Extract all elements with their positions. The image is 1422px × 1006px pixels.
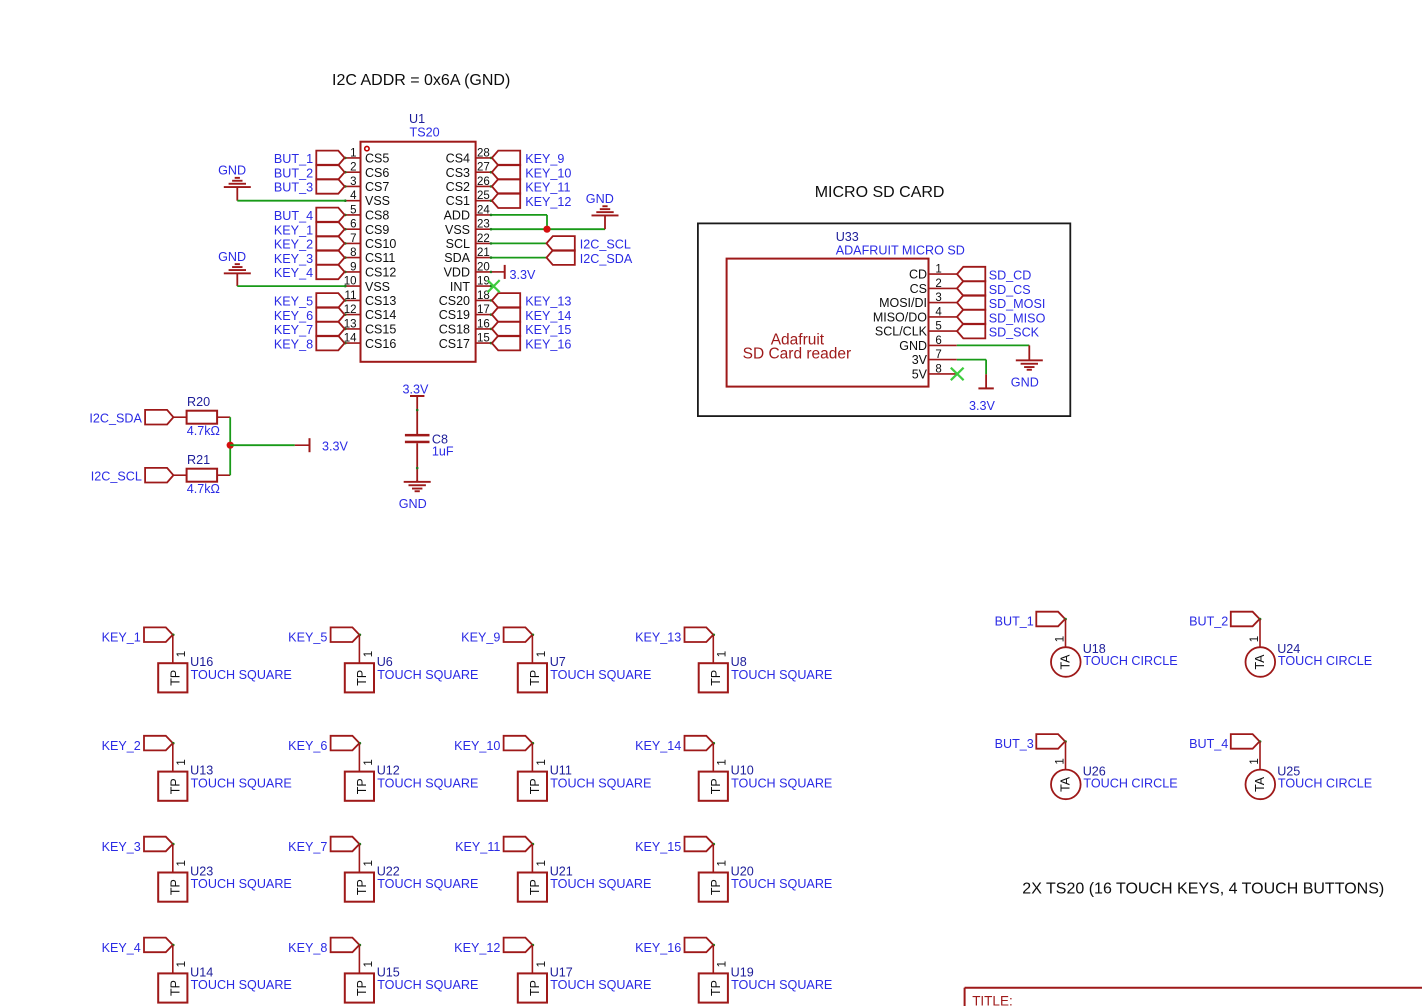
net label KEY_4 at U1 pin 9 [316, 265, 344, 280]
net label KEY_9 at U1 pin 28 [492, 151, 520, 166]
svg-text:TA: TA [1059, 654, 1073, 670]
svg-text:TP: TP [709, 778, 723, 794]
svg-text:CS14: CS14 [365, 308, 396, 322]
svg-text:KEY_4: KEY_4 [274, 266, 313, 280]
net label KEY_13 at U1 pin 18 [492, 293, 520, 308]
svg-text:9: 9 [350, 261, 356, 273]
svg-text:7: 7 [350, 233, 356, 245]
svg-text:CS15: CS15 [365, 323, 396, 337]
power 3.3V at pullups [295, 444, 309, 446]
svg-text:1: 1 [1249, 636, 1261, 642]
svg-text:CS11: CS11 [365, 251, 395, 265]
touch pad U7 TOUCH SQUARE (KEY_9) [504, 627, 533, 642]
svg-text:TS20: TS20 [410, 125, 440, 139]
svg-text:CS18: CS18 [439, 323, 470, 337]
touch pad U25 TOUCH CIRCLE (BUT_4) [1231, 734, 1260, 749]
touch pad U8 TOUCH SQUARE (KEY_13) [685, 627, 714, 642]
svg-text:TA: TA [1253, 654, 1267, 670]
svg-text:1: 1 [176, 961, 188, 967]
svg-text:KEY_1: KEY_1 [274, 223, 313, 237]
svg-text:TITLE:: TITLE: [972, 994, 1013, 1006]
U33 pin 5 (SCL/CLK) [929, 330, 957, 332]
svg-text:KEY_9: KEY_9 [525, 152, 564, 166]
net label KEY_2 at U1 pin 7 [316, 236, 344, 251]
U33 pin 1 (CD) [929, 273, 957, 275]
U1 pin 10 (VSS) [344, 285, 360, 287]
svg-text:TOUCH SQUARE: TOUCH SQUARE [191, 978, 292, 992]
svg-text:VSS: VSS [365, 194, 390, 208]
U1 pin 5 (CS8) [344, 214, 360, 216]
svg-text:ADD: ADD [444, 209, 470, 223]
svg-text:5: 5 [935, 321, 941, 333]
svg-text:TOUCH SQUARE: TOUCH SQUARE [377, 978, 478, 992]
svg-text:5V: 5V [912, 368, 928, 382]
svg-text:CS13: CS13 [365, 294, 396, 308]
svg-text:TP: TP [709, 879, 723, 895]
net label BUT_2 at U1 pin 2 [316, 165, 344, 180]
svg-text:KEY_1: KEY_1 [102, 631, 141, 645]
svg-text:TOUCH SQUARE: TOUCH SQUARE [731, 776, 832, 790]
svg-text:6: 6 [350, 219, 356, 231]
svg-text:GND: GND [218, 250, 246, 264]
U1 pin 24 (ADD) [476, 214, 492, 216]
svg-text:SD_CD: SD_CD [989, 269, 1032, 283]
svg-text:CS1: CS1 [446, 194, 470, 208]
svg-text:TOUCH SQUARE: TOUCH SQUARE [191, 877, 292, 891]
svg-text:4: 4 [935, 306, 942, 318]
net label KEY_10 at U1 pin 27 [492, 165, 520, 180]
svg-text:KEY_16: KEY_16 [525, 337, 571, 351]
resistor R20 4.7kOhm [187, 411, 218, 424]
svg-text:KEY_10: KEY_10 [454, 739, 500, 753]
IC U1 TS20 body [361, 142, 476, 362]
svg-text:1: 1 [350, 147, 356, 159]
svg-text:26: 26 [477, 176, 490, 188]
svg-text:2X TS20 (16 TOUCH KEYS, 4 TOUC: 2X TS20 (16 TOUCH KEYS, 4 TOUCH BUTTONS) [1022, 880, 1384, 897]
svg-text:3.3V: 3.3V [969, 399, 996, 413]
net label I2C_SCL [547, 236, 575, 251]
U1 pin 19 (INT) [476, 285, 492, 287]
svg-text:TA: TA [1253, 776, 1267, 792]
svg-text:KEY_7: KEY_7 [274, 323, 313, 337]
net label I2C_SDA at R20 [145, 410, 173, 425]
U1 pin 14 (CS16) [344, 342, 360, 344]
touch pad U19 TOUCH SQUARE (KEY_16) [685, 938, 714, 953]
svg-text:4: 4 [350, 190, 357, 202]
svg-text:TP: TP [355, 980, 369, 996]
svg-text:12: 12 [344, 304, 357, 316]
svg-text:BUT_1: BUT_1 [274, 152, 313, 166]
net label SD_MISO at U33 pin 4 [957, 310, 985, 325]
net label KEY_3 at U1 pin 8 [316, 250, 344, 265]
svg-text:INT: INT [450, 280, 471, 294]
U1 pin 23 (VSS) [476, 228, 492, 230]
net label KEY_7 at U1 pin 13 [316, 322, 344, 337]
touch pad U23 TOUCH SQUARE (KEY_3) [144, 837, 173, 852]
svg-text:KEY_8: KEY_8 [274, 337, 313, 351]
svg-text:BUT_1: BUT_1 [995, 615, 1034, 629]
U1 pin 4 (VSS) [344, 200, 360, 202]
svg-text:BUT_2: BUT_2 [274, 166, 313, 180]
U1 pin 18 (CS20) [476, 299, 492, 301]
power 3.3V at U1 pin 20 VDD [492, 271, 504, 273]
svg-text:1: 1 [363, 860, 375, 866]
svg-text:CS19: CS19 [439, 308, 470, 322]
touch pad U24 TOUCH CIRCLE (BUT_2) [1231, 612, 1260, 627]
wire U1 pin 24 ADD to junction [492, 214, 547, 216]
U1 pin 2 (CS6) [344, 171, 360, 173]
U1 pin 26 (CS2) [476, 185, 492, 187]
svg-text:1: 1 [1055, 636, 1067, 642]
IC U33 body Adafruit SD card reader [727, 259, 929, 387]
svg-text:TP: TP [528, 980, 542, 996]
svg-text:TOUCH CIRCLE: TOUCH CIRCLE [1278, 654, 1372, 668]
svg-text:17: 17 [477, 304, 490, 316]
wire I2C_SCL to R21 [173, 474, 186, 476]
U1 pin 9 (CS12) [344, 271, 360, 273]
svg-text:SDA: SDA [444, 251, 470, 265]
svg-text:1uF: 1uF [432, 445, 454, 459]
svg-text:2: 2 [935, 278, 941, 290]
svg-text:KEY_8: KEY_8 [288, 941, 327, 955]
net label SD_MOSI at U33 pin 3 [957, 295, 985, 310]
svg-text:7: 7 [935, 349, 941, 361]
touch pad U11 TOUCH SQUARE (KEY_10) [504, 736, 533, 751]
wire I2C_SDA to R20 [173, 416, 186, 418]
svg-text:CS9: CS9 [365, 223, 389, 237]
svg-text:KEY_13: KEY_13 [635, 631, 681, 645]
svg-text:GND: GND [586, 192, 614, 206]
svg-text:3: 3 [935, 292, 941, 304]
svg-text:GND: GND [899, 339, 927, 353]
svg-text:11: 11 [345, 290, 357, 302]
wire junction to 3.3V [230, 444, 295, 446]
svg-text:21: 21 [477, 247, 490, 259]
wire C8 to ground [416, 443, 418, 481]
touch pad U13 TOUCH SQUARE (KEY_2) [144, 736, 173, 751]
svg-text:U1: U1 [409, 112, 425, 126]
svg-text:1: 1 [717, 860, 729, 866]
svg-text:GND: GND [218, 164, 246, 178]
net label KEY_5 at U1 pin 11 [316, 293, 344, 308]
svg-text:14: 14 [344, 333, 357, 345]
svg-text:I2C_SCL: I2C_SCL [91, 469, 142, 483]
svg-text:3: 3 [350, 176, 356, 188]
U1 pin 12 (CS14) [344, 314, 360, 316]
svg-text:24: 24 [477, 204, 490, 216]
svg-text:BUT_2: BUT_2 [1189, 615, 1228, 629]
touch pad U12 TOUCH SQUARE (KEY_6) [331, 736, 360, 751]
svg-text:3.3V: 3.3V [510, 268, 537, 282]
svg-text:KEY_9: KEY_9 [461, 631, 500, 645]
svg-text:I2C_SDA: I2C_SDA [580, 252, 633, 266]
svg-text:TP: TP [355, 879, 369, 895]
touch pad U10 TOUCH SQUARE (KEY_14) [685, 736, 714, 751]
svg-text:SD_MOSI: SD_MOSI [989, 297, 1046, 311]
svg-text:CS: CS [910, 282, 927, 296]
touch pad U21 TOUCH SQUARE (KEY_11) [504, 837, 533, 852]
svg-text:CS12: CS12 [365, 266, 396, 280]
net label I2C_SCL at R21 [145, 468, 173, 483]
U1 pin 21 (SDA) [476, 257, 492, 259]
svg-text:1: 1 [536, 961, 548, 967]
svg-text:GND: GND [1011, 376, 1039, 390]
U1 pin 16 (CS18) [476, 328, 492, 330]
U1 pin 27 (CS3) [476, 171, 492, 173]
U1 pin 7 (CS10) [344, 242, 360, 244]
wire GND to U1 pin 10 [237, 285, 344, 287]
svg-text:1: 1 [1249, 758, 1261, 764]
svg-text:KEY_5: KEY_5 [274, 295, 313, 309]
svg-text:CS20: CS20 [439, 294, 470, 308]
svg-text:SCL/CLK: SCL/CLK [875, 325, 928, 339]
touch pad U15 TOUCH SQUARE (KEY_8) [331, 938, 360, 953]
svg-text:MOSI/DI: MOSI/DI [879, 296, 927, 310]
svg-text:ADAFRUIT MICRO SD: ADAFRUIT MICRO SD [836, 243, 965, 257]
svg-text:2: 2 [350, 162, 356, 174]
svg-text:I2C ADDR = 0x6A (GND): I2C ADDR = 0x6A (GND) [332, 72, 510, 89]
svg-text:MICRO SD CARD: MICRO SD CARD [815, 184, 945, 201]
svg-text:BUT_4: BUT_4 [1189, 737, 1228, 751]
svg-text:KEY_5: KEY_5 [288, 631, 327, 645]
svg-text:SD_SCK: SD_SCK [989, 326, 1040, 340]
wire U1 pin 22 SCL [492, 242, 547, 244]
net label KEY_6 at U1 pin 12 [316, 307, 344, 322]
svg-text:U33: U33 [836, 230, 859, 244]
svg-text:15: 15 [477, 333, 490, 345]
net label KEY_8 at U1 pin 14 [316, 336, 344, 351]
svg-text:3.3V: 3.3V [322, 440, 349, 454]
svg-text:R20: R20 [187, 395, 210, 409]
svg-text:TP: TP [169, 778, 183, 794]
svg-text:TP: TP [528, 879, 542, 895]
svg-text:KEY_16: KEY_16 [635, 941, 681, 955]
svg-text:CS8: CS8 [365, 209, 389, 223]
no-connect X at U33 pin 8 5V [951, 368, 964, 381]
svg-text:CS16: CS16 [365, 337, 396, 351]
U33 pin 8 (5V) [929, 373, 957, 375]
svg-text:TOUCH SQUARE: TOUCH SQUARE [550, 877, 651, 891]
net label KEY_11 at U1 pin 26 [492, 179, 520, 194]
svg-text:VSS: VSS [445, 223, 470, 237]
ground GND at U1 pins 23/24 [604, 215, 606, 229]
svg-text:CS2: CS2 [446, 180, 470, 194]
svg-text:SCL: SCL [446, 237, 470, 251]
svg-text:R21: R21 [187, 453, 210, 467]
no-connect X at U1 pin 19 INT [488, 280, 500, 292]
svg-text:TOUCH CIRCLE: TOUCH CIRCLE [1083, 776, 1177, 790]
svg-text:1: 1 [717, 759, 729, 765]
svg-text:TOUCH SQUARE: TOUCH SQUARE [377, 668, 478, 682]
touch pad U18 TOUCH CIRCLE (BUT_1) [1036, 612, 1065, 627]
svg-text:TOUCH SQUARE: TOUCH SQUARE [377, 877, 478, 891]
svg-text:3V: 3V [912, 353, 928, 367]
wire U33 pin 6 GND [957, 344, 1030, 346]
svg-text:4.7kΩ: 4.7kΩ [187, 482, 220, 496]
svg-text:KEY_2: KEY_2 [102, 739, 141, 753]
svg-text:KEY_4: KEY_4 [102, 941, 141, 955]
svg-text:KEY_13: KEY_13 [525, 295, 571, 309]
svg-text:TOUCH SQUARE: TOUCH SQUARE [731, 978, 832, 992]
net label BUT_3 at U1 pin 3 [316, 179, 344, 194]
touch pad U17 TOUCH SQUARE (KEY_12) [504, 938, 533, 953]
U33 pin 6 (GND) [929, 344, 957, 346]
U1 pin 8 (CS11) [344, 257, 360, 259]
touch pad U16 TOUCH SQUARE (KEY_1) [144, 627, 173, 642]
svg-text:TP: TP [169, 980, 183, 996]
svg-text:TOUCH SQUARE: TOUCH SQUARE [191, 776, 292, 790]
net label BUT_1 at U1 pin 1 [316, 151, 344, 166]
net label KEY_12 at U1 pin 25 [492, 193, 520, 208]
net label SD_CS at U33 pin 2 [957, 281, 985, 296]
svg-text:I2C_SCL: I2C_SCL [580, 238, 631, 252]
svg-text:SD_MISO: SD_MISO [989, 312, 1046, 326]
U1 pin 25 (CS1) [476, 200, 492, 202]
svg-text:TOUCH SQUARE: TOUCH SQUARE [377, 776, 478, 790]
svg-text:KEY_3: KEY_3 [274, 252, 313, 266]
svg-text:KEY_15: KEY_15 [525, 323, 571, 337]
svg-text:KEY_6: KEY_6 [274, 309, 313, 323]
svg-text:6: 6 [935, 335, 941, 347]
wire GND to U1 pin 4 [237, 200, 344, 202]
svg-text:KEY_10: KEY_10 [525, 166, 571, 180]
svg-text:TOUCH SQUARE: TOUCH SQUARE [731, 668, 832, 682]
net label I2C_SDA [547, 250, 575, 265]
net label SD_CD at U33 pin 1 [957, 267, 985, 282]
svg-text:1: 1 [176, 860, 188, 866]
net label SD_SCK at U33 pin 5 [957, 324, 985, 339]
svg-text:TP: TP [169, 879, 183, 895]
svg-text:KEY_11: KEY_11 [525, 181, 570, 195]
svg-text:3.3V: 3.3V [403, 382, 430, 396]
net label KEY_15 at U1 pin 16 [492, 322, 520, 337]
U1 pin 3 (CS7) [344, 185, 360, 187]
svg-text:TOUCH SQUARE: TOUCH SQUARE [191, 668, 292, 682]
svg-text:VDD: VDD [444, 266, 470, 280]
svg-text:CS6: CS6 [365, 166, 389, 180]
module frame U33 [698, 223, 1070, 416]
svg-text:MISO/DO: MISO/DO [873, 311, 927, 325]
svg-text:TP: TP [528, 778, 542, 794]
svg-text:1: 1 [363, 651, 375, 657]
svg-text:TP: TP [709, 980, 723, 996]
svg-text:22: 22 [477, 233, 490, 245]
svg-text:CS4: CS4 [446, 152, 470, 166]
svg-text:KEY_7: KEY_7 [288, 840, 327, 854]
U1 pin 17 (CS19) [476, 314, 492, 316]
svg-text:1: 1 [717, 651, 729, 657]
svg-text:1: 1 [935, 264, 941, 276]
U1 pin 15 (CS17) [476, 342, 492, 344]
U1 pin 13 (CS15) [344, 328, 360, 330]
ground GND at U1 pin 10 [236, 273, 238, 286]
svg-text:VSS: VSS [365, 280, 390, 294]
U1 pin 11 (CS13) [344, 299, 360, 301]
svg-text:KEY_15: KEY_15 [635, 840, 681, 854]
svg-text:KEY_2: KEY_2 [274, 238, 313, 252]
svg-text:KEY_12: KEY_12 [525, 195, 571, 209]
svg-text:KEY_3: KEY_3 [102, 840, 141, 854]
svg-text:1: 1 [717, 961, 729, 967]
title block frame [965, 987, 1422, 989]
svg-text:1: 1 [536, 860, 548, 866]
svg-text:CS3: CS3 [446, 166, 470, 180]
svg-text:1: 1 [536, 759, 548, 765]
wire R20 to junction [217, 416, 230, 418]
touch pad U26 TOUCH CIRCLE (BUT_3) [1036, 734, 1065, 749]
svg-text:TA: TA [1059, 776, 1073, 792]
touch pad U20 TOUCH SQUARE (KEY_15) [685, 837, 714, 852]
svg-text:BUT_3: BUT_3 [274, 181, 313, 195]
wire R21 to junction [217, 474, 230, 476]
ground GND at U1 pin 4 [236, 187, 238, 201]
U1 pin 20 (VDD) [476, 271, 492, 273]
ground GND at U33 pin 6 [1028, 345, 1030, 360]
U1 pin 1 (CS5) [344, 157, 360, 159]
svg-text:SD Card reader: SD Card reader [743, 346, 852, 363]
U1 pin 6 (CS9) [344, 228, 360, 230]
power 3.3V at U33 pin 7 [985, 374, 987, 387]
svg-text:TP: TP [528, 670, 542, 686]
svg-text:KEY_14: KEY_14 [525, 309, 571, 323]
svg-text:TOUCH SQUARE: TOUCH SQUARE [731, 877, 832, 891]
svg-text:8: 8 [350, 247, 356, 259]
svg-text:CS7: CS7 [365, 180, 389, 194]
touch pad U22 TOUCH SQUARE (KEY_7) [331, 837, 360, 852]
svg-text:1: 1 [176, 759, 188, 765]
svg-text:13: 13 [344, 318, 357, 330]
svg-text:1: 1 [536, 651, 548, 657]
svg-text:TOUCH CIRCLE: TOUCH CIRCLE [1278, 776, 1372, 790]
net label BUT_4 at U1 pin 5 [316, 208, 344, 223]
svg-text:23: 23 [477, 219, 490, 231]
svg-text:GND: GND [399, 497, 427, 511]
net label KEY_16 at U1 pin 15 [492, 336, 520, 351]
svg-text:16: 16 [477, 318, 490, 330]
svg-text:KEY_12: KEY_12 [454, 941, 500, 955]
resistor R21 4.7kOhm [187, 469, 218, 482]
svg-text:4.7kΩ: 4.7kΩ [187, 424, 220, 438]
svg-text:TP: TP [709, 670, 723, 686]
svg-text:25: 25 [477, 190, 490, 202]
svg-text:20: 20 [477, 261, 490, 273]
svg-text:TP: TP [169, 670, 183, 686]
svg-text:1: 1 [363, 759, 375, 765]
svg-text:CS17: CS17 [439, 337, 470, 351]
svg-text:1: 1 [1055, 758, 1067, 764]
svg-text:TOUCH SQUARE: TOUCH SQUARE [550, 978, 651, 992]
svg-text:28: 28 [477, 147, 490, 159]
svg-text:TP: TP [355, 670, 369, 686]
svg-text:CD: CD [909, 268, 927, 282]
net label KEY_1 at U1 pin 6 [316, 222, 344, 237]
svg-text:SD_CS: SD_CS [989, 283, 1031, 297]
U33 pin 4 (MISO/DO) [929, 316, 957, 318]
svg-text:TOUCH CIRCLE: TOUCH CIRCLE [1083, 654, 1177, 668]
svg-text:5: 5 [350, 204, 356, 216]
U33 pin 2 (CS) [929, 287, 957, 289]
svg-text:BUT_4: BUT_4 [274, 209, 313, 223]
pin 1 indicator circle [365, 146, 369, 150]
svg-text:BUT_3: BUT_3 [995, 737, 1034, 751]
svg-text:1: 1 [363, 961, 375, 967]
U1 pin 22 (SCL) [476, 242, 492, 244]
svg-text:TOUCH SQUARE: TOUCH SQUARE [550, 668, 651, 682]
svg-text:I2C_SDA: I2C_SDA [89, 411, 142, 425]
svg-text:KEY_11: KEY_11 [455, 840, 500, 854]
capacitor C8 1uF [405, 434, 430, 437]
svg-text:KEY_6: KEY_6 [288, 739, 327, 753]
